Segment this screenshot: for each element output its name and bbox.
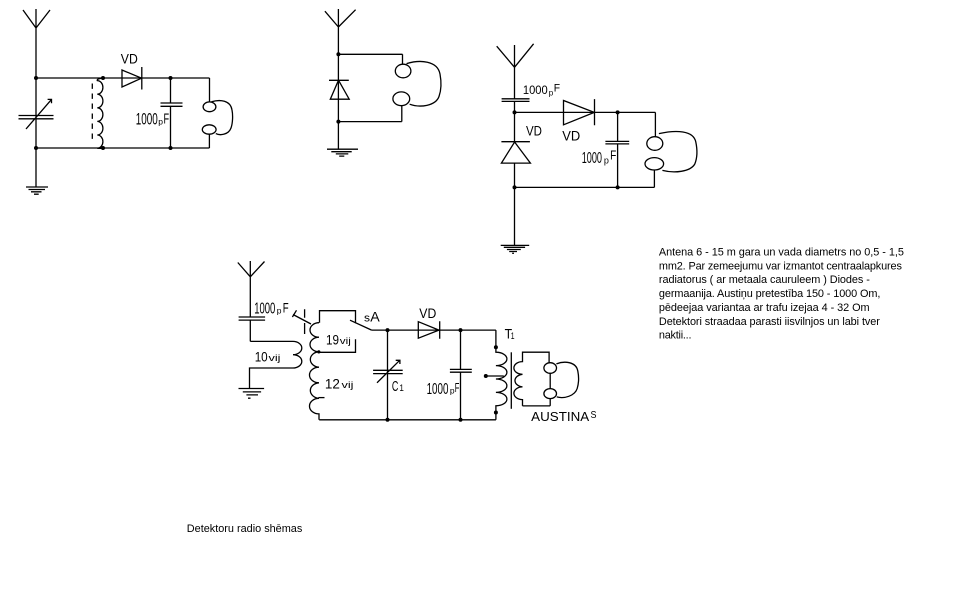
svg-text:1000: 1000 [136, 110, 158, 129]
svg-text:S: S [591, 409, 597, 421]
svg-text:VD: VD [419, 305, 436, 321]
svg-text:F: F [455, 380, 460, 395]
svg-text:1000: 1000 [427, 381, 449, 398]
svg-text:germaanija. Austiņu pretestība: germaanija. Austiņu pretestība 150 - 100… [659, 288, 881, 300]
svg-text:p: p [604, 155, 609, 165]
svg-text:VD: VD [526, 123, 542, 139]
svg-text:AUSTINA: AUSTINA [531, 410, 590, 424]
svg-text:F: F [283, 301, 289, 316]
svg-text:VD: VD [562, 127, 580, 143]
svg-text:mm2. Par zemeejumu var izmanto: mm2. Par zemeejumu var izmantot centraal… [659, 260, 903, 272]
svg-text:1: 1 [399, 383, 404, 394]
svg-text:F: F [554, 83, 560, 95]
svg-text:1000: 1000 [523, 83, 548, 97]
svg-text:19: 19 [326, 332, 339, 348]
svg-text:1000: 1000 [582, 150, 602, 167]
svg-text:radiatorus ( ar metaala caurul: radiatorus ( ar metaala cauruleem ) Diod… [659, 274, 870, 286]
svg-text:VD: VD [121, 51, 138, 67]
svg-text:F: F [610, 149, 616, 163]
svg-text:A: A [370, 310, 380, 325]
svg-text:p: p [158, 116, 163, 126]
svg-text:Detektoru radio shēmas: Detektoru radio shēmas [187, 523, 303, 535]
svg-text:Antena 6 - 15 m gara un vada d: Antena 6 - 15 m gara un vada diametrs no… [659, 247, 904, 259]
svg-text:pēdeejaa variantaa ar trafu iz: pēdeejaa variantaa ar trafu izejaa 4 - 3… [659, 302, 870, 314]
svg-text:12: 12 [325, 376, 340, 392]
svg-text:Detektori straadaa parasti iis: Detektori straadaa parasti iisvilnjos un… [659, 316, 880, 328]
svg-text:10: 10 [255, 349, 268, 365]
svg-text:naktii...: naktii... [659, 330, 692, 342]
svg-text:vij: vij [340, 336, 351, 347]
svg-text:vij: vij [269, 353, 281, 364]
svg-text:p: p [277, 305, 282, 315]
svg-text:1: 1 [511, 331, 515, 342]
svg-text:vij: vij [342, 380, 354, 391]
svg-text:1000: 1000 [254, 301, 275, 318]
svg-text:C: C [392, 378, 399, 395]
svg-text:F: F [164, 111, 170, 128]
